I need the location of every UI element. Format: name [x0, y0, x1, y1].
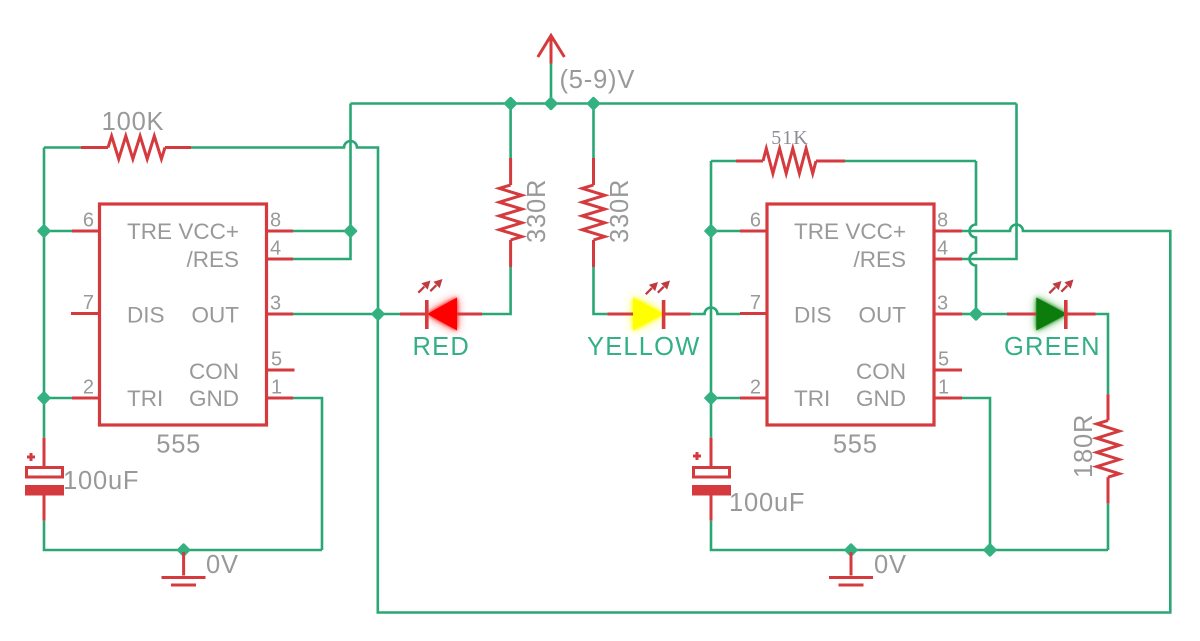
wire 330R left top to rail [509, 104, 512, 159]
svg-text:330R: 330R [606, 179, 634, 243]
svg-text:GREEN: GREEN [1004, 333, 1101, 361]
wire top +V rail [351, 102, 1017, 105]
op-amp IC1 555 left body [100, 204, 267, 425]
IC1 pin 4 stub [266, 258, 293, 261]
svg-text:RED: RED [413, 333, 470, 361]
wire GREEN led to 180R top [1096, 314, 1109, 394]
wire 330R right bottom to YELLOW led [594, 267, 608, 314]
wire right555 pin8 long net with hop over x1016.5 [378, 225, 1171, 613]
svg-text:TRI: TRI [127, 386, 163, 411]
wire 51K net [711, 160, 976, 163]
wire 330R right top to rail [592, 104, 595, 159]
wire left cap top [43, 398, 46, 438]
svg-text:7: 7 [750, 292, 761, 314]
node right gnd [846, 545, 856, 555]
svg-text:DIS: DIS [127, 303, 165, 328]
IC2 pin 4 stub [934, 258, 963, 261]
IC2 pin numbers [750, 210, 949, 399]
node right gnd pin1 [985, 545, 995, 555]
node left TRE [39, 226, 49, 236]
resistor R4 330R right [582, 158, 634, 267]
svg-text:/RES: /RES [853, 247, 906, 272]
svg-text:CON: CON [189, 359, 239, 384]
svg-text:555: 555 [156, 431, 201, 459]
IC1 pin 8 stub [266, 230, 293, 233]
svg-text:VCC+: VCC+ [845, 219, 906, 244]
wire OUT node to GREEN led [976, 313, 1007, 316]
IC2 labels [794, 219, 906, 411]
node rail junction A [505, 98, 515, 108]
wire left555 pin2 [44, 397, 72, 400]
svg-text:5: 5 [938, 349, 949, 371]
IC1 pin 3 stub [266, 313, 293, 316]
wire rail drop to left555 pin8, hopped by 100K wire [349, 104, 352, 232]
svg-text:GND: GND [856, 386, 906, 411]
wire right555 pin6 [711, 230, 740, 233]
svg-text:TRE: TRE [127, 219, 172, 244]
IC2 pin 6 stub [740, 230, 767, 233]
wire supply stem [550, 64, 553, 104]
svg-text:TRE: TRE [794, 219, 839, 244]
svg-text:555: 555 [833, 431, 878, 459]
resistor R3 330R left [499, 158, 551, 267]
node left OUT [373, 309, 383, 319]
IC1 pin 1 stub [266, 397, 293, 400]
svg-text:YELLOW: YELLOW [587, 333, 700, 361]
node left gnd [178, 545, 188, 555]
wire RED led to 330R bottom [482, 267, 511, 314]
ground GND2 right [829, 551, 907, 585]
wire mid rail x711 51K to TRE to TRI [710, 161, 713, 398]
op-amp IC2 555 right body [767, 204, 934, 425]
wire right cap top [710, 398, 713, 438]
wire left555 pin4 up to pin8 node [293, 231, 351, 259]
svg-text:4: 4 [270, 238, 281, 260]
IC2 pin 5 stub [934, 369, 963, 372]
node rail junction supply [546, 98, 556, 108]
svg-text:5: 5 [271, 349, 282, 371]
node right OUT [971, 309, 981, 319]
svg-text:/RES: /RES [186, 247, 239, 272]
svg-text:TRI: TRI [794, 386, 830, 411]
wire right555 pin3 OUT [962, 313, 976, 316]
wire left555 pin6 [44, 230, 72, 233]
svg-text:1: 1 [938, 377, 949, 399]
wire right555 pin1 gnd drop [962, 398, 990, 550]
wire 100K net with hop over x350.5 [44, 141, 378, 314]
svg-text:2: 2 [750, 377, 761, 399]
capacitor C1 100uF left [25, 438, 139, 521]
node right TRE [706, 226, 716, 236]
resistor R2 51K [736, 127, 845, 174]
svg-text:OUT: OUT [859, 303, 907, 328]
IC1 pin 2 stub [72, 397, 100, 400]
svg-text:8: 8 [937, 210, 948, 232]
wire left cap bottom to gnd rail [44, 521, 322, 550]
svg-text:GND: GND [189, 386, 239, 411]
resistor R1 100K [81, 108, 191, 159]
svg-text:OUT: OUT [192, 303, 240, 328]
IC2 pin 8 stub [934, 230, 963, 233]
wire 180R bottom to gnd rail [1107, 503, 1110, 550]
IC2 pin 2 stub [740, 397, 767, 400]
svg-text:0V: 0V [874, 551, 907, 579]
node rail junction B [588, 98, 598, 108]
svg-text:0V: 0V [206, 551, 239, 579]
wire left555 pin1 to gnd rail [293, 398, 322, 550]
svg-text:100uF: 100uF [63, 467, 139, 495]
node right TRI [706, 393, 716, 403]
svg-text:6: 6 [750, 210, 761, 232]
ground GND1 left [162, 551, 239, 585]
svg-text:CON: CON [856, 359, 906, 384]
IC1 pin 5 stub [266, 369, 295, 372]
svg-text:330R: 330R [523, 179, 551, 243]
svg-text:8: 8 [270, 210, 281, 232]
IC1 pin 7 stub [71, 312, 100, 315]
wire right555 pin2 [711, 397, 740, 400]
IC1 pin 6 stub [72, 230, 100, 233]
wire right555 pin4 to rail [962, 104, 1017, 260]
capacitor C2 100uF right [692, 438, 805, 521]
svg-text:3: 3 [937, 293, 948, 315]
node left pin8 [345, 226, 355, 236]
wire left555 pin3 OUT to node [293, 313, 378, 316]
IC2 pin 7 stub [740, 312, 767, 315]
wire left rail x44 [43, 148, 46, 399]
wire right gnd rail [711, 521, 1108, 550]
svg-text:51K: 51K [771, 127, 808, 149]
svg-text:(5-9)V: (5-9)V [560, 66, 636, 94]
svg-text:100uF: 100uF [729, 489, 805, 517]
wire 51K right drop to OUT with hops over pin8 pin4 rows [970, 161, 976, 314]
wire left555 pin8 [293, 230, 351, 233]
svg-text:7: 7 [83, 292, 94, 314]
svg-text:2: 2 [83, 377, 94, 399]
supply +V arrow [538, 36, 635, 95]
LED2 YELLOW [587, 281, 700, 362]
svg-text:4: 4 [937, 238, 948, 260]
wire OUT node to RED led [378, 313, 400, 316]
IC1 labels [127, 219, 239, 411]
svg-text:6: 6 [83, 210, 94, 232]
wire YELLOW led to right555 pin7 with hop over x711 [691, 308, 740, 315]
LED1 RED [400, 279, 482, 361]
svg-text:100K: 100K [102, 108, 165, 136]
svg-text:1: 1 [271, 377, 282, 399]
node left TRI [39, 393, 49, 403]
IC2 pin 1 stub [934, 397, 963, 400]
svg-text:VCC+: VCC+ [178, 219, 239, 244]
IC2 pin 3 stub [934, 313, 963, 316]
svg-text:3: 3 [270, 293, 281, 315]
IC1 pin numbers [83, 210, 282, 399]
LED3 GREEN [1004, 280, 1101, 362]
svg-text:180R: 180R [1070, 414, 1098, 478]
svg-text:DIS: DIS [794, 303, 832, 328]
resistor R5 180R [1070, 394, 1119, 503]
